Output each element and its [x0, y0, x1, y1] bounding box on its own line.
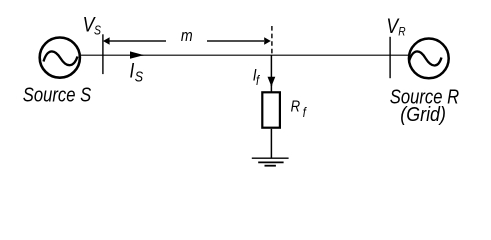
svg-text:Source S: Source S	[23, 83, 92, 106]
svg-text:m: m	[181, 27, 193, 45]
svg-text:S: S	[135, 67, 144, 84]
svg-text:R: R	[291, 99, 301, 116]
svg-text:S: S	[94, 24, 101, 38]
svg-text:(Grid): (Grid)	[400, 104, 446, 126]
svg-text:R: R	[398, 26, 405, 39]
